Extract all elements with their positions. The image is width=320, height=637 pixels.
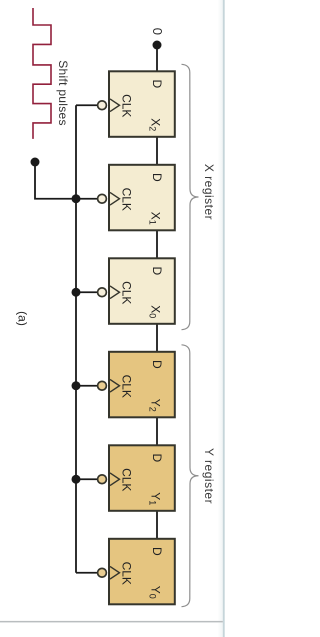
wire: serial input to U1 D [156,45,158,72]
flip-flop U4 (Y2) [98,352,175,418]
svg-text:CLK: CLK [120,468,134,491]
node: shift pulse input dot [31,158,40,167]
svg-text:X register: X register [202,164,216,220]
svg-text:CLK: CLK [120,375,134,398]
node: junction dot U2 clock [72,194,81,203]
CLK edge triangle U3 [110,286,120,299]
wire: clock branch to U2 [76,198,99,200]
svg-text:(a): (a) [15,311,29,326]
node: junction dot U5 clock [72,475,81,484]
page right border line [0,0,1,1]
wire: clock branch to U5 [76,478,99,480]
flip-flop U5 (Y1) [98,445,175,511]
svg-text:D: D [150,453,164,462]
node: junction dot U4 clock [72,381,81,390]
node: junction dot U3 clock [72,288,81,297]
CLK bubble U1 [98,101,107,110]
wire: U5 Q to U6 D [156,511,158,540]
CLK bubble U6 [98,568,107,577]
svg-text:0: 0 [150,28,165,35]
wire: shift pulse input to clock trunk [35,162,76,199]
flip-flop U1 (X2) [98,71,175,137]
wire: clock branch to U6 [76,572,99,574]
CLK bubble U2 [98,194,107,203]
wire: clock branch to U4 [76,385,99,387]
wire: clock branch to U1 [76,104,99,106]
svg-text:D: D [150,173,164,182]
wire: clock branch to U3 [76,291,99,293]
svg-text:D: D [150,547,164,556]
CLK edge triangle U4 [110,379,120,392]
wire: U2 Q to U3 D [156,230,158,259]
svg-text:Y register: Y register [202,448,216,504]
svg-text:D: D [150,79,164,88]
svg-text:CLK: CLK [120,281,134,304]
CLK bubble U5 [98,475,107,484]
wire: U3 Q to U4 D [156,324,158,353]
brace: X register [182,64,199,329]
CLK bubble U3 [98,288,107,297]
page background [0,0,226,637]
flip-flop U6 (Y0) [98,539,175,605]
CLK edge triangle U1 [110,99,120,112]
flip-flop U3 (X0) [98,258,175,324]
flip-flop U2 (X1) [98,165,175,231]
CLK edge triangle U6 [110,566,120,579]
CLK edge triangle U5 [110,473,120,486]
svg-text:D: D [150,360,164,369]
shift pulses waveform [33,8,51,139]
wire: clock trunk [75,105,77,573]
CLK edge triangle U2 [110,192,120,205]
wire: U1 Q to U2 D [156,137,158,166]
page bottom separator line [0,621,223,623]
svg-text:CLK: CLK [120,188,134,211]
svg-text:D: D [150,266,164,275]
svg-text:CLK: CLK [120,94,134,117]
svg-text:CLK: CLK [120,562,134,585]
node: serial input dot [153,41,162,50]
wire: U4 Q to U5 D [156,417,158,446]
svg-text:Shift pulses: Shift pulses [56,60,70,126]
CLK bubble U4 [98,381,107,390]
brace: Y register [182,345,199,607]
